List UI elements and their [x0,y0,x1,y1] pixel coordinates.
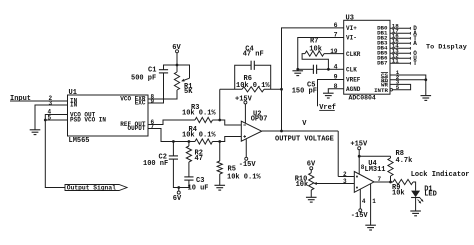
svg-text:A: A [413,40,417,47]
svg-text:10k: 10k [392,190,405,198]
capacitor C1 [164,65,178,70]
resistor R4 [195,139,213,144]
wire +15V to U2 [244,104,246,124]
svg-text:V: V [302,120,307,128]
svg-text:C1: C1 [148,66,156,74]
wire output to U4 pin 2 [337,131,339,177]
resistor R3 [195,117,213,122]
capacitor C3 [184,176,193,178]
svg-text:OUTPUT VOLTAGE: OUTPUT VOLTAGE [275,135,334,143]
svg-text:1: 1 [372,198,376,205]
svg-text:+15V: +15V [235,96,253,104]
svg-text:5: 5 [48,114,52,121]
svg-text:150 pF: 150 pF [292,88,317,96]
svg-text:U1: U1 [69,89,77,97]
wire R4 to node B [213,141,220,143]
power terminal 6V top [176,50,179,53]
U2 minus mark [243,124,246,126]
svg-text:100 nF: 100 nF [143,160,168,168]
svg-text:10k 0.1%: 10k 0.1% [182,110,216,118]
wire +15V to U4 [358,150,360,157]
wire U1 pin 4 VCO OUT [45,115,67,121]
svg-text:10k: 10k [309,45,322,53]
ground U4 pin 1 [365,224,376,226]
svg-text:3: 3 [49,100,53,107]
svg-text:Output Signal: Output Signal [67,184,116,191]
power terminal +15V for U4 [358,147,361,150]
svg-text:47: 47 [195,155,203,163]
wire 6V to junction [176,53,178,72]
svg-text:INTR: INTR [374,87,388,94]
IC U3 ADC0804 body [344,20,390,94]
U3 INTR bubble [390,89,392,91]
svg-text:OUPUT: OUPUT [127,125,145,132]
wire Input to U1 pin 2 [10,100,68,102]
potentiometer R10 [310,170,312,173]
wire DB4 stub [390,47,410,49]
svg-text:-15V: -15V [239,161,257,169]
svg-text:7: 7 [378,176,382,183]
comparator U4 body [354,172,374,193]
LED light arrows [418,200,421,203]
wire R3 to node A [213,119,220,121]
svg-text:EXC: EXC [135,100,146,107]
wire U4 pin 3 from R10 wiper [315,183,355,185]
wire DB1 stub [390,32,410,34]
resistor R5 [219,142,221,162]
svg-text:LED: LED [424,191,437,199]
svg-text:LM565: LM565 [69,137,90,145]
wire U1 pin 6 to R3 [148,120,195,125]
svg-text:CLKR: CLKR [346,51,361,58]
wire DB2 stub [390,37,410,39]
svg-text:Lock Indicator: Lock Indicator [411,171,470,179]
junction node A [218,119,221,122]
svg-text:500 pF: 500 pF [131,75,156,83]
power terminal 6V bottom [178,188,180,192]
clock capacitor C5 [298,68,314,70]
junction CLK node [327,68,330,71]
ground below D1 [410,210,421,212]
junction node B [218,140,221,143]
wire U1 pin 3 to ground [35,105,68,130]
wire DB5 stub [390,52,410,54]
power terminal +15V for U2 [244,101,247,104]
svg-text:AGND: AGND [346,86,361,93]
resistor R8 [390,156,392,158]
wire node A to R6 [219,89,221,120]
wire DB7 stub [390,62,410,64]
wire U3 CLK pin [328,68,343,70]
svg-text:6V: 6V [172,44,181,52]
junction bottom 6V node [177,186,180,189]
wire DB0 stub [390,27,410,29]
svg-text:5K: 5K [184,88,193,96]
wire U3 VREF to Vref [318,80,344,107]
svg-text:OP07: OP07 [251,116,268,124]
wire node B to U2 non-inverting input [220,137,242,142]
svg-text:ADC0804: ADC0804 [349,95,376,102]
ground at U1 pin 3 [30,129,41,131]
svg-text:10k 0.1%: 10k 0.1% [227,174,261,182]
wire U1 pin 7 to R4 [148,129,195,142]
svg-text:6V: 6V [307,160,316,168]
svg-text:6: 6 [334,22,338,29]
U2 plus mark [243,136,246,138]
svg-text:Input: Input [10,95,31,103]
svg-text:10 uF: 10 uF [188,185,209,193]
wire RD to ground rail [390,79,426,81]
ground clock [292,70,303,72]
wire DB3 stub [390,42,410,44]
LED D1 [411,191,420,198]
junction CS/RD [424,78,427,81]
junction U2 output [280,130,283,133]
IC U1 LM565 body [68,95,149,136]
svg-text:+15V: +15V [350,140,368,148]
wire +15V node to R8 [359,155,390,157]
wire CS to ground rail [390,75,426,80]
junction 6V node [176,64,179,67]
svg-text:R7: R7 [310,37,318,45]
resistor R9 [393,179,413,184]
junction clock ground node [296,68,299,71]
wire U4 output pin 7 [374,181,393,183]
svg-text:DB7: DB7 [377,60,388,67]
wire output up to U3 VI+ [282,28,344,131]
wire node A to U2 inverting input [220,120,242,125]
wire +15V node to U4 pin 8 [358,156,360,174]
ground below R5 [214,184,225,186]
svg-text:VI+: VI+ [346,25,357,32]
power terminal -15V for U4 [359,209,362,212]
U4 plus mark [356,176,358,178]
svg-text:4.7k: 4.7k [396,157,413,165]
resistor R1 (trimmer) [174,72,179,90]
svg-text:10k: 10k [296,181,309,189]
wire WR to INTR [390,84,411,89]
svg-text:10k 0.1%: 10k 0.1% [236,82,270,90]
junction R2 top [188,140,191,143]
wire U4 pin 2 [338,176,354,178]
svg-text:3: 3 [343,178,347,185]
wire U3 VI- to ground node [298,38,344,70]
U4 minus mark [356,187,358,189]
junction C2 top [172,140,175,143]
wire LED to ground [415,198,417,212]
junction pins 4-5 [44,119,47,122]
svg-text:VI-: VI- [346,35,357,42]
svg-text:Vref: Vref [319,104,336,112]
svg-text:PSD VCO IN: PSD VCO IN [70,116,106,123]
wire DB6 stub [390,57,410,59]
svg-text:LM311: LM311 [365,166,386,174]
svg-text:T: T [413,60,417,67]
resistor R6 [220,88,242,90]
svg-text:47 nF: 47 nF [243,51,264,59]
op-amp U2 body [241,121,261,141]
wire U3 AGND to ground [328,89,343,94]
power terminal 6V for R10 [310,167,313,170]
svg-text:-15V: -15V [351,212,369,220]
svg-text:To Display: To Display [426,44,467,52]
ground below R10 [306,196,317,198]
junction +15V node [358,155,361,158]
svg-text:U3: U3 [346,14,354,22]
wire -15V to U2 [245,139,247,157]
junction R6 output side [280,88,283,91]
ground AGND [323,92,334,94]
svg-text:2: 2 [343,171,347,178]
svg-text:6V: 6V [173,195,182,203]
R1 wiper wire [177,65,190,78]
net flag Output Signal [65,185,127,191]
wire U2 output [262,130,339,132]
ground CS/RD [421,95,432,97]
wire U4 pin 1 to ground [370,184,372,225]
wire U1 pin 5 PSD VCO IN [45,119,67,121]
resistor R2 [188,142,190,147]
svg-text:VREF: VREF [346,77,361,84]
power terminal -15V for U2 [245,157,248,160]
wire to Output Signal [45,120,65,188]
svg-text:4: 4 [362,198,366,205]
resistor R7 [324,53,344,55]
wire U4 pin 4 to -15V [359,189,361,209]
capacitor C2 [172,142,174,156]
svg-text:11: 11 [392,58,399,65]
junction U4 output / R8 [389,181,392,184]
capacitor C4 [235,65,251,89]
svg-text:CLK: CLK [346,67,357,74]
wire ground rail down [425,80,427,96]
svg-text:R5: R5 [228,165,236,173]
svg-text:IN: IN [70,102,78,109]
svg-text:10k 0.1%: 10k 0.1% [182,132,216,140]
